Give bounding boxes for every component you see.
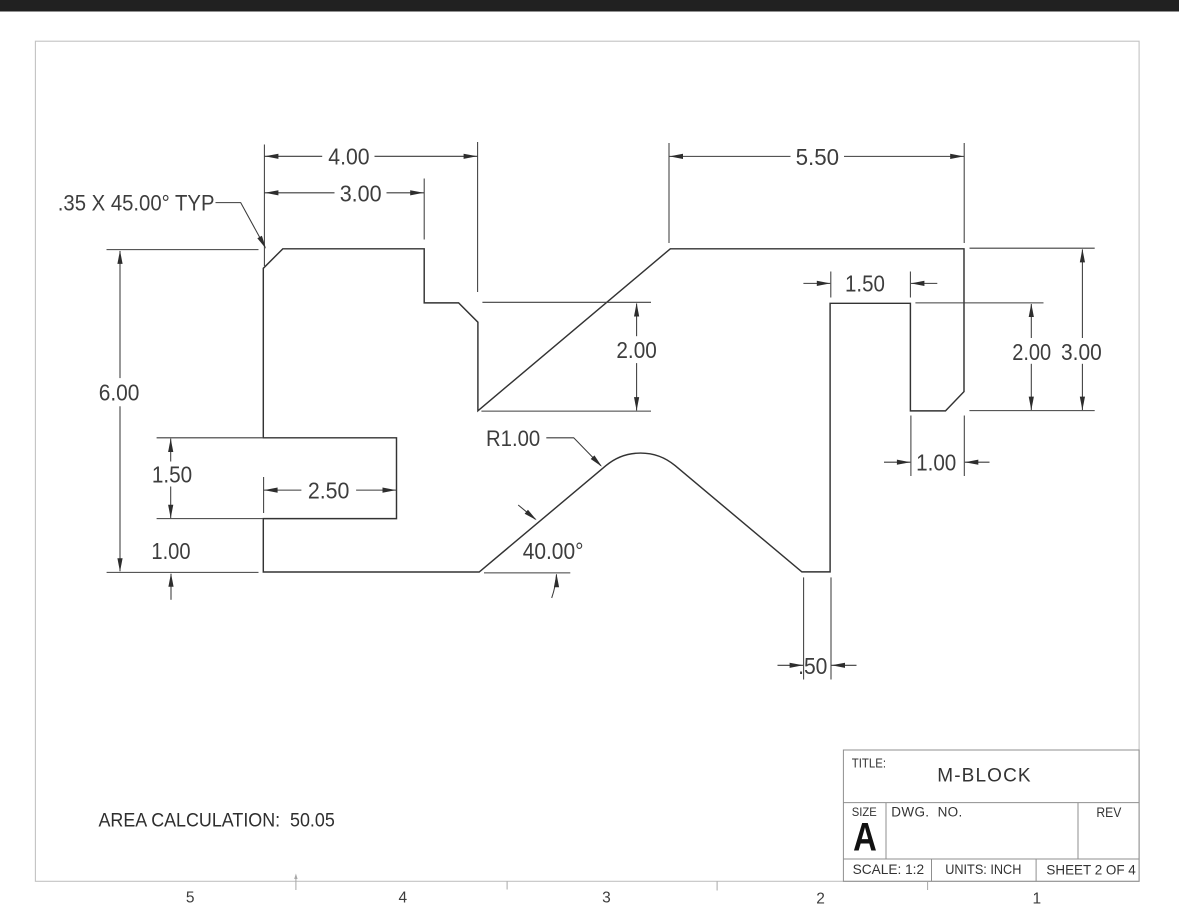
svg-text:1.00: 1.00: [151, 538, 190, 564]
part outline M-BLOCK profile: [263, 249, 964, 572]
svg-text:2.00: 2.00: [1012, 339, 1051, 365]
svg-text:1: 1: [1032, 891, 1041, 908]
title block divider SCALE/UNITS: [931, 859, 933, 881]
dimension 1.00 right extension lines: [910, 416, 912, 477]
svg-text:5.50: 5.50: [796, 144, 840, 170]
svg-text:REV: REV: [1096, 805, 1121, 820]
zone tick 3/2: [716, 881, 718, 890]
radius leader: [546, 438, 601, 466]
dimension 2.00 right: [1030, 304, 1032, 338]
dimension 2.50: [264, 489, 302, 491]
svg-text:3.00: 3.00: [1061, 339, 1102, 365]
slot top extension line right: [915, 302, 1043, 304]
dimension .50 extension lines: [803, 577, 805, 679]
svg-text:1.50: 1.50: [152, 462, 192, 488]
dimension 1.50 left: [170, 439, 172, 462]
svg-text:3.00: 3.00: [340, 181, 382, 207]
svg-text:TITLE:: TITLE:: [852, 756, 886, 770]
svg-text:AREA CALCULATION: 50.05: AREA CALCULATION: 50.05: [99, 810, 335, 832]
dimension 3.00: [264, 192, 334, 194]
title block frame: [843, 750, 1139, 881]
svg-text:5: 5: [186, 890, 195, 907]
top edge extension line right: [970, 247, 1095, 249]
svg-text:SHEET 2 OF 4: SHEET 2 OF 4: [1046, 862, 1136, 878]
svg-text:4: 4: [398, 890, 407, 907]
svg-text:3: 3: [602, 890, 611, 907]
title block row line 2: [843, 858, 1139, 860]
svg-text:1.00: 1.00: [916, 449, 956, 475]
svg-text:A: A: [853, 815, 877, 859]
svg-text:2: 2: [816, 891, 825, 908]
zone tick 5/4: [295, 877, 297, 890]
dimension 2.00 center: [636, 304, 638, 337]
svg-text:.35 X 45.00° TYP: .35 X 45.00° TYP: [58, 190, 215, 215]
angular dimension 40.00&#176; arrows: [518, 505, 535, 519]
dimension 5.50: [669, 155, 791, 157]
dimension 2.00 center extension lines: [482, 301, 651, 303]
title block row line 1: [843, 802, 1139, 804]
svg-text:DWG. NO.: DWG. NO.: [891, 805, 962, 820]
title block divider DWG/REV: [1077, 803, 1079, 859]
zone tick 2/1: [927, 881, 929, 890]
svg-text:.50: .50: [798, 653, 827, 679]
svg-text:40.00°: 40.00°: [523, 538, 584, 564]
dimension 4.00: [264, 155, 322, 157]
dimension 6.00 extension lines: [107, 249, 259, 251]
svg-text:UNITS: INCH: UNITS: INCH: [945, 861, 1021, 877]
notch bottom extension line: [157, 518, 263, 520]
dimension 3.00 right: [1081, 249, 1083, 338]
dimension 2.50 extension line: [263, 477, 265, 513]
svg-text:4.00: 4.00: [328, 144, 369, 170]
dimension 1.50 right: [803, 282, 830, 284]
chamfer note leader: [216, 203, 265, 247]
angular dimension 40.00&#176; extension line: [484, 572, 570, 574]
notch top extension line: [157, 437, 263, 439]
svg-text:M-BLOCK: M-BLOCK: [937, 766, 1031, 787]
foot bottom extension line right: [969, 410, 1094, 412]
dimension 1.00 left: [170, 574, 172, 600]
dimension .50: [778, 664, 804, 666]
svg-text:2.50: 2.50: [308, 478, 350, 504]
svg-text:1.50: 1.50: [845, 270, 885, 296]
dimension 3.00 extension line: [423, 179, 425, 240]
svg-text:SCALE: 1:2: SCALE: 1:2: [853, 861, 925, 877]
dimension 1.50 right extension lines: [830, 272, 832, 298]
zone tick 4/3: [506, 881, 508, 889]
svg-text:6.00: 6.00: [99, 380, 140, 406]
dimension 4.00 extension lines: [263, 145, 265, 267]
svg-text:2.00: 2.00: [616, 337, 656, 363]
top header bar: [0, 0, 1179, 12]
title block divider SIZE/DWG: [885, 803, 887, 859]
dimension 5.50 extension lines: [668, 143, 670, 243]
dimension 6.00: [119, 251, 121, 378]
svg-text:R1.00: R1.00: [486, 426, 540, 451]
dimension 1.00 right: [884, 461, 910, 463]
title block divider UNITS/SHEET: [1035, 859, 1037, 881]
